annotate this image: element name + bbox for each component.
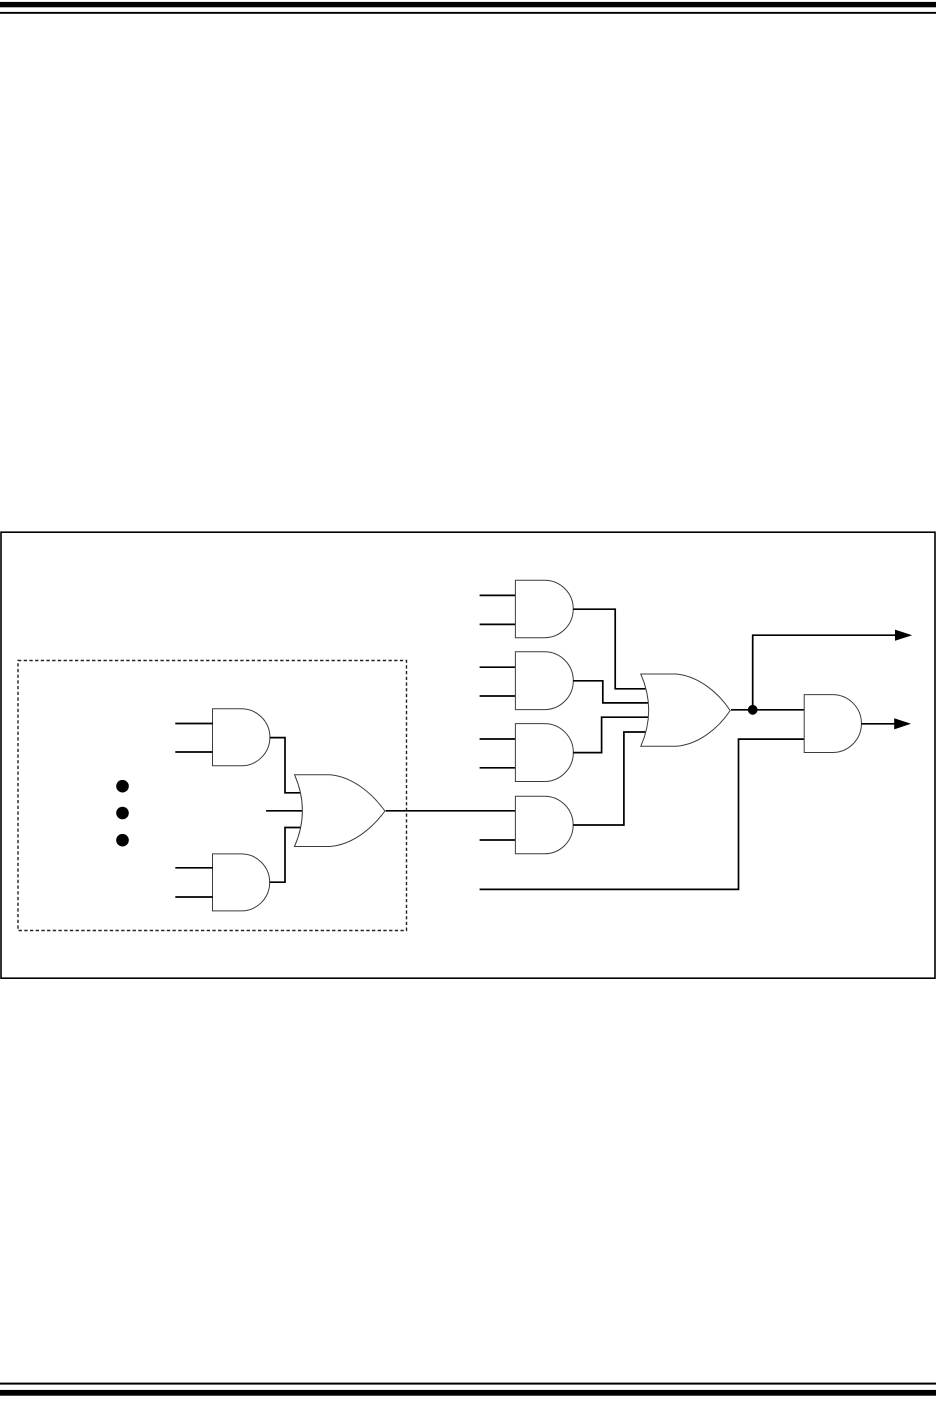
wire U6 input b	[480, 767, 516, 769]
and-gate U4 (stack, first)	[515, 580, 573, 638]
wire junction to top output	[753, 635, 896, 710]
and-gate U9 (output)	[804, 695, 861, 753]
and-gate U6 (stack, third)	[515, 724, 573, 782]
or-gate U3 (dashed box)	[295, 775, 385, 847]
wire bottom feedback to U9 input b	[480, 739, 805, 889]
wire U2 input b	[175, 896, 213, 898]
ellipsis dot 2	[116, 807, 129, 820]
page header thin rule	[0, 12, 936, 14]
arrowhead top output	[895, 630, 912, 641]
wire U7 output to U8	[573, 732, 646, 825]
ellipsis dot 1	[116, 780, 129, 793]
wire U1 input b	[175, 751, 213, 753]
wire U8 output to U9 input a	[731, 709, 804, 711]
wire U5 input a	[480, 666, 516, 668]
wire U4 input a	[480, 594, 516, 596]
wire U1 output to U3	[270, 738, 301, 793]
or-gate U8 (main)	[641, 674, 730, 746]
wire U2 input a	[175, 867, 213, 869]
dashed sub-circuit box	[18, 661, 407, 931]
and-gate U2 (dashed box, bottom)	[213, 854, 270, 911]
wire U7 input b	[480, 839, 516, 841]
and-gate U5 (stack, second)	[515, 652, 573, 710]
wire U9 output	[861, 723, 894, 725]
arrowhead bottom output	[894, 718, 911, 729]
page header thick rule	[0, 2, 936, 7]
wire U5 output to U8	[573, 681, 649, 703]
wire U1 input a	[175, 723, 213, 725]
figure outer border	[1, 532, 935, 978]
wire U3 middle input	[266, 810, 303, 812]
wire U3 output to U7 input	[386, 810, 516, 812]
and-gate U7 (stack, fourth)	[515, 796, 573, 854]
and-gate U1 (dashed box, top)	[213, 709, 270, 766]
wire U5 input b	[480, 695, 516, 697]
wire U6 input a	[480, 738, 516, 740]
wire U6 output to U8	[573, 717, 649, 752]
junction node	[748, 705, 758, 715]
page footer thick rule	[0, 1390, 936, 1396]
wire U4 input b	[480, 623, 516, 625]
wire U4 output to U8	[573, 609, 647, 689]
wire U2 output to U3	[270, 828, 302, 883]
ellipsis dot 3	[116, 834, 129, 847]
page footer thin rule	[0, 1383, 936, 1385]
